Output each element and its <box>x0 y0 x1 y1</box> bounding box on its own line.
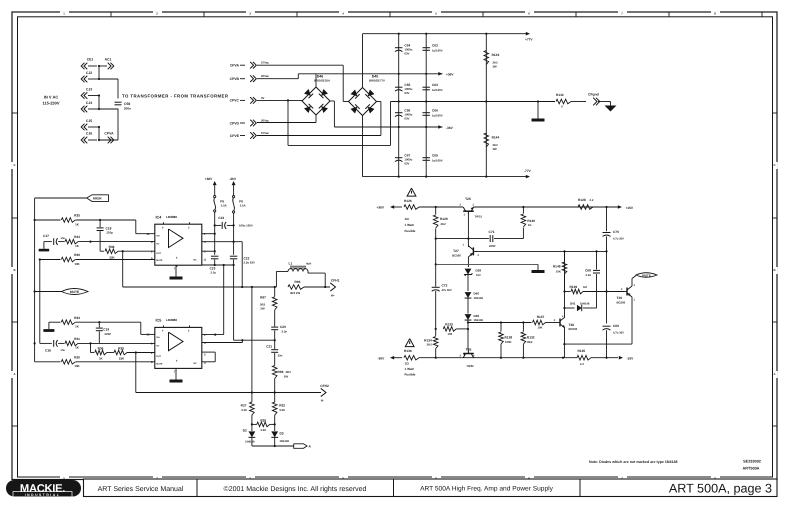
resistor R126 <box>404 199 419 233</box>
svg-text:-15V: -15V <box>627 357 635 361</box>
wire <box>362 116 364 177</box>
resistor R98 <box>272 353 291 393</box>
wire <box>251 287 253 393</box>
svg-text:R126: R126 <box>404 199 412 203</box>
resistor R135 <box>577 349 591 366</box>
svg-text:TIP31: TIP31 <box>475 215 483 219</box>
svg-text:2.5A: 2.5A <box>221 204 227 208</box>
wire <box>425 34 427 177</box>
svg-text:115-230V: 115-230V <box>42 101 59 106</box>
svg-text:C19: C19 <box>103 328 109 332</box>
node A flag <box>294 444 312 449</box>
svg-text:R35: R35 <box>74 214 80 218</box>
connector CE1 <box>81 58 97 70</box>
svg-text:R33: R33 <box>74 316 80 320</box>
fuse F5 <box>214 196 227 212</box>
power +36V mid <box>438 72 454 77</box>
svg-text:3W: 3W <box>493 65 498 69</box>
resistor R132 <box>521 323 535 358</box>
wire <box>136 391 321 393</box>
svg-text:ART 500A High Freq. Amp and Po: ART 500A High Freq. Amp and Power Supply <box>420 486 554 493</box>
svg-text:57Vac: 57Vac <box>261 61 269 65</box>
capacitor C22 <box>230 256 255 265</box>
wire <box>202 352 215 362</box>
resistor R35 <box>35 214 81 227</box>
svg-text:ART 500A, page 3: ART 500A, page 3 <box>669 481 772 495</box>
connector CJ5 <box>81 119 99 130</box>
svg-text:C: C <box>773 163 775 167</box>
resistor R38 <box>100 245 118 259</box>
svg-text:R148: R148 <box>553 265 561 269</box>
svg-text:OUT: OUT <box>156 252 161 255</box>
wire <box>78 241 155 243</box>
transistor T29 <box>617 284 636 304</box>
connector CFgnd <box>588 93 600 106</box>
capacitor C24 <box>215 216 253 229</box>
svg-text:+36V: +36V <box>377 206 385 210</box>
svg-text:Note: Diodes which are not mar: Note: Diodes which are not marked are ty… <box>589 460 677 464</box>
svg-text:3.3K: 3.3K <box>279 408 285 412</box>
wire <box>99 79 118 99</box>
svg-text:OUT: OUT <box>156 355 161 358</box>
svg-text:2K2: 2K2 <box>427 343 433 347</box>
ground <box>170 368 183 382</box>
svg-text:CE1: CE1 <box>87 58 94 62</box>
svg-text:SE233092: SE233092 <box>743 460 761 464</box>
svg-text:B: B <box>13 268 15 272</box>
wire <box>257 115 316 123</box>
wire <box>34 198 36 260</box>
wire <box>298 73 442 87</box>
svg-text:R143: R143 <box>492 53 500 57</box>
svg-text:-36V: -36V <box>446 126 454 130</box>
wire <box>593 206 618 208</box>
svg-text:2K2: 2K2 <box>441 222 447 226</box>
transistor T28 <box>556 315 578 331</box>
svg-text:T27: T27 <box>453 249 459 253</box>
svg-text:C62: C62 <box>432 44 438 48</box>
wire <box>39 260 41 344</box>
svg-text:3.3K: 3.3K <box>260 428 266 432</box>
capacitor C19 <box>96 322 111 343</box>
connector CJ4 <box>81 101 99 112</box>
warning triangle <box>405 339 414 347</box>
svg-text:CPVC: CPVC <box>230 99 240 103</box>
wire <box>563 328 565 358</box>
resistor R138 <box>499 323 513 358</box>
svg-text:R30: R30 <box>74 355 80 359</box>
svg-text:C24: C24 <box>218 216 224 220</box>
diode D2 <box>243 429 256 444</box>
svg-text:BRIDGE77V: BRIDGE77V <box>369 79 385 83</box>
svg-text:T25: T25 <box>465 197 471 201</box>
capacitor C66 <box>422 109 442 118</box>
resistor R139 <box>563 285 624 294</box>
resistor R137 <box>533 315 557 330</box>
wire <box>223 265 225 335</box>
svg-text:47u 35V: 47u 35V <box>442 289 452 292</box>
wire <box>288 102 391 146</box>
svg-text:R139: R139 <box>570 285 578 289</box>
diode D38 zener <box>465 269 482 277</box>
svg-text:R27: R27 <box>241 403 247 407</box>
svg-text:10K: 10K <box>74 262 80 266</box>
svg-text:1Ω: 1Ω <box>405 217 410 221</box>
svg-text:63V: 63V <box>404 162 409 166</box>
svg-text:C66: C66 <box>432 109 438 113</box>
svg-text:-36V: -36V <box>229 177 237 181</box>
power -36V mid <box>438 125 453 130</box>
svg-text:220P: 220P <box>105 332 112 336</box>
svg-text:H-: H- <box>321 399 324 403</box>
svg-text:BC560: BC560 <box>617 300 626 304</box>
svg-text:100: 100 <box>447 332 452 336</box>
title block bar <box>84 479 778 497</box>
svg-text:R137: R137 <box>537 315 545 319</box>
svg-text:CFH2: CFH2 <box>320 384 329 388</box>
power +36V in <box>377 205 403 209</box>
svg-text:3W: 3W <box>493 147 498 151</box>
wire <box>122 251 124 287</box>
svg-text:+36V: +36V <box>446 73 454 77</box>
wire <box>467 323 469 351</box>
svg-text:1 Watt: 1 Watt <box>405 367 414 371</box>
power -77V <box>524 169 532 178</box>
capacitor C72 <box>432 284 452 337</box>
capacitor C62 <box>422 44 442 53</box>
wire <box>241 242 243 287</box>
svg-text:2W: 2W <box>284 374 289 378</box>
svg-text:10u: 10u <box>61 237 66 240</box>
svg-text:1N4148: 1N4148 <box>280 440 290 443</box>
resistor R148 <box>553 251 567 291</box>
wire <box>202 334 224 336</box>
svg-text:CJ5: CJ5 <box>86 119 92 123</box>
resistor R31 <box>65 337 80 350</box>
svg-text:IN V AC: IN V AC <box>44 95 59 100</box>
svg-text:C71: C71 <box>489 230 495 234</box>
wire <box>564 251 566 317</box>
capacitor C18 <box>97 220 114 251</box>
power +15V <box>618 205 634 210</box>
svg-text:BRIDGE35A: BRIDGE35A <box>314 79 330 83</box>
svg-text:22K: 22K <box>119 357 125 361</box>
power -36V in <box>378 356 403 360</box>
svg-text:1N4148: 1N4148 <box>474 319 484 322</box>
connector CFH2 <box>320 384 329 403</box>
svg-text:D40: D40 <box>474 292 480 296</box>
wire <box>98 94 118 110</box>
connector CFH1 <box>330 278 339 297</box>
svg-text:2.2: 2.2 <box>580 362 584 366</box>
connector CJ6 <box>81 132 97 144</box>
wire <box>467 275 469 291</box>
svg-text:3.3n: 3.3n <box>282 329 288 333</box>
svg-text:R38: R38 <box>109 245 115 249</box>
svg-text:R35: R35 <box>118 346 124 350</box>
svg-text:A: A <box>773 372 775 376</box>
wire <box>435 229 437 285</box>
svg-text:MUTE: MUTE <box>70 290 80 294</box>
wire <box>419 206 463 208</box>
svg-text:2.2u: 2.2u <box>586 273 592 277</box>
wire <box>99 109 118 141</box>
svg-text:33n: 33n <box>278 354 283 358</box>
svg-text:-77V: -77V <box>524 169 532 173</box>
resistor R144 <box>484 133 499 151</box>
svg-text:R136: R136 <box>404 349 412 353</box>
svg-text:Fusible: Fusible <box>405 373 416 377</box>
svg-text:R130: R130 <box>527 219 535 223</box>
wire <box>467 299 469 314</box>
svg-text:1u/100V: 1u/100V <box>432 49 443 53</box>
wire <box>76 219 155 234</box>
transistor T26 <box>460 348 475 368</box>
wire <box>123 286 277 288</box>
capacitor C63 <box>422 83 442 92</box>
svg-text:CPVD: CPVD <box>230 121 240 125</box>
wire <box>76 321 155 334</box>
wire <box>467 257 469 267</box>
svg-text:10K: 10K <box>556 269 561 273</box>
svg-text:D2: D2 <box>243 429 247 433</box>
svg-text:10K: 10K <box>74 364 80 368</box>
connector CPVA <box>230 61 270 69</box>
svg-text:+15V: +15V <box>626 206 634 210</box>
wire +77V rail <box>363 33 527 35</box>
svg-text:R98: R98 <box>278 370 284 374</box>
svg-text:R129: R129 <box>440 217 448 221</box>
svg-text:NC: NC <box>194 259 198 262</box>
wire <box>538 101 555 103</box>
capacitor C64 <box>395 44 413 56</box>
svg-text:220p: 220p <box>107 231 114 235</box>
text SE233092 <box>743 460 761 471</box>
wire <box>274 415 276 431</box>
ground <box>532 102 545 122</box>
svg-text:C20: C20 <box>280 325 286 329</box>
svg-text:C63: C63 <box>432 83 438 87</box>
wire <box>78 342 155 344</box>
svg-text:10K: 10K <box>537 326 542 330</box>
wire T27 base rail <box>475 250 608 252</box>
svg-text:CFH1: CFH1 <box>331 278 340 282</box>
op-amp IC5 <box>146 318 206 374</box>
svg-text:4.7u 35V: 4.7u 35V <box>613 331 624 334</box>
svg-text:C21: C21 <box>266 345 272 349</box>
svg-text:A: A <box>13 372 15 376</box>
wire <box>257 65 349 101</box>
connector CPVC <box>230 96 265 104</box>
svg-text:CJ3: CJ3 <box>86 88 92 92</box>
svg-text:8K2: 8K2 <box>527 340 533 344</box>
svg-text:T26: T26 <box>466 348 472 352</box>
svg-text:R133: R133 <box>445 322 453 326</box>
svg-text:H+: H+ <box>331 294 335 298</box>
resistor R97 <box>260 287 277 310</box>
resistor R96 <box>288 280 304 295</box>
resistor R39 <box>39 253 155 266</box>
node MUTE <box>35 289 88 295</box>
svg-text:R31: R31 <box>74 337 80 341</box>
svg-text:R128: R128 <box>578 198 586 202</box>
svg-text:TO TRANSFORMER - FROM TRANSF: TO TRANSFORMER - FROM TRANSFORMER <box>122 93 229 98</box>
Mackie logo <box>6 480 81 497</box>
svg-text:D39: D39 <box>474 314 480 318</box>
svg-text:C70: C70 <box>613 230 619 234</box>
wire <box>257 102 381 136</box>
wire <box>98 65 100 80</box>
svg-text:C72: C72 <box>442 284 448 288</box>
svg-text:1Ω: 1Ω <box>405 362 410 366</box>
wire <box>127 351 155 353</box>
svg-text:-36V: -36V <box>378 356 386 360</box>
resistor R32 <box>272 393 285 416</box>
note text <box>589 460 677 464</box>
svg-text:1M: 1M <box>583 285 588 289</box>
text IN VAC <box>42 95 59 106</box>
svg-text:LM3886: LM3886 <box>166 215 177 219</box>
connector CJ2 <box>81 71 99 83</box>
wire <box>467 214 469 247</box>
svg-text:1 Watt: 1 Watt <box>405 223 414 227</box>
wire <box>251 415 253 431</box>
connector CPVB <box>230 74 270 82</box>
svg-text:R39: R39 <box>74 253 80 257</box>
capacitor C23 <box>210 256 219 274</box>
svg-text:63V: 63V <box>404 117 409 121</box>
node MUTE right <box>636 273 657 278</box>
resistor R143 <box>484 51 499 69</box>
wire <box>233 265 235 340</box>
resistor R37 <box>107 346 127 360</box>
text page label <box>669 481 772 495</box>
svg-text:57Vac: 57Vac <box>261 131 269 135</box>
svg-text:2.2: 2.2 <box>590 198 594 202</box>
diode D3 <box>271 431 289 443</box>
svg-text:CPVA: CPVA <box>230 64 240 68</box>
svg-text:4uH: 4uH <box>306 262 311 266</box>
svg-text:3R3 2W: 3R3 2W <box>290 291 300 295</box>
ground <box>170 265 183 279</box>
wire <box>436 263 538 265</box>
svg-text:CJ2: CJ2 <box>86 71 92 75</box>
resistor R133 <box>443 322 468 335</box>
svg-text:16V: 16V <box>476 274 481 277</box>
svg-text:TIP32: TIP32 <box>466 364 474 368</box>
svg-text:1N4148: 1N4148 <box>245 441 255 444</box>
wire <box>202 340 243 342</box>
svg-text:1u/100V: 1u/100V <box>432 88 443 92</box>
svg-text:4.7u 35V: 4.7u 35V <box>613 238 624 241</box>
svg-text:LM3886: LM3886 <box>166 318 177 322</box>
svg-text:Fusible: Fusible <box>405 229 416 233</box>
svg-text:C17: C17 <box>43 234 49 238</box>
capacitor C59 <box>115 102 132 110</box>
wire <box>467 321 469 331</box>
wire <box>330 101 334 127</box>
svg-text:BC560: BC560 <box>452 254 461 258</box>
capacitor C56 <box>395 109 413 121</box>
svg-text:2W: 2W <box>260 306 265 310</box>
wire <box>234 339 276 341</box>
svg-text:NC: NC <box>194 362 198 365</box>
svg-text:R34: R34 <box>74 235 80 239</box>
wire <box>233 213 235 255</box>
wire <box>202 250 216 252</box>
svg-text:100K: 100K <box>505 340 512 344</box>
svg-text:MUTE: MUTE <box>156 362 163 365</box>
diode D39 <box>465 314 484 322</box>
wire <box>34 260 36 362</box>
wire <box>606 251 608 323</box>
svg-text:IC5: IC5 <box>156 319 162 323</box>
resistor R36 <box>91 346 107 360</box>
svg-text:C68: C68 <box>585 268 591 272</box>
capacitor C21 <box>266 340 282 357</box>
svg-text:AC1: AC1 <box>105 58 112 62</box>
connector CPVD <box>230 118 270 126</box>
svg-text:R135: R135 <box>578 349 586 353</box>
svg-text:R32: R32 <box>279 403 285 407</box>
diode D41 <box>563 302 596 312</box>
resistor R33 <box>43 316 80 332</box>
svg-text:D41: D41 <box>570 302 576 306</box>
svg-text:0V: 0V <box>261 96 265 100</box>
svg-text:100u 100V: 100u 100V <box>239 224 253 228</box>
wire <box>474 206 608 208</box>
svg-text:10: 10 <box>146 333 150 337</box>
svg-text:R144: R144 <box>492 136 500 140</box>
svg-text:©2001 Mackie Designs Inc. All: ©2001 Mackie Designs Inc. All rights res… <box>224 485 367 493</box>
ground <box>532 264 545 273</box>
svg-text:1K: 1K <box>528 223 532 227</box>
wire <box>252 437 294 447</box>
svg-text:200n: 200n <box>124 106 131 110</box>
text TO TRANSFORMER - FROM TRANSFORMER <box>122 93 229 98</box>
svg-text:HIGH: HIGH <box>93 197 102 201</box>
fuse F6 <box>233 196 246 213</box>
resistor R34 <box>65 235 80 248</box>
capacitor C71 <box>436 230 524 248</box>
wire <box>202 241 242 243</box>
wire <box>202 264 235 266</box>
power +77V <box>525 32 533 42</box>
svg-text:1N4148: 1N4148 <box>580 303 590 306</box>
warning triangle <box>407 188 416 196</box>
text sheet title <box>420 486 554 493</box>
svg-text:R26: R26 <box>260 418 266 422</box>
capacitor C70 <box>603 207 625 251</box>
resistor R26 <box>252 418 275 431</box>
wire <box>304 286 330 288</box>
wire <box>435 207 437 215</box>
svg-text:R36: R36 <box>98 346 104 350</box>
capacitor C55 <box>395 83 413 95</box>
svg-text:CJ4: CJ4 <box>86 101 92 105</box>
wire <box>334 126 442 128</box>
resistor R134 <box>424 337 438 358</box>
capacitor C65 <box>422 154 442 163</box>
node HIGH <box>35 195 109 202</box>
rectifier D45 <box>349 75 386 116</box>
svg-text:2.5A: 2.5A <box>240 204 246 208</box>
resistor R128 <box>578 198 594 209</box>
svg-text:22K: 22K <box>109 255 115 259</box>
svg-text:MUTE: MUTE <box>642 273 651 277</box>
wire <box>257 74 298 79</box>
wire <box>98 126 100 141</box>
